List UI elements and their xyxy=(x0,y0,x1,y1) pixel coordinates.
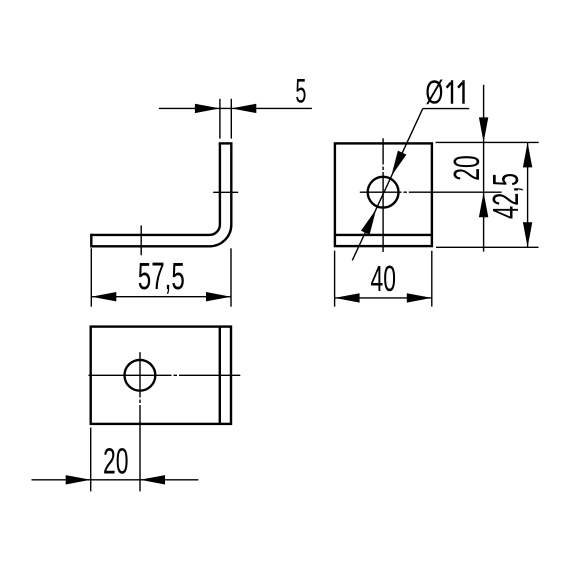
dimension 57,5: right extension line xyxy=(230,248,232,306)
front view: bend line xyxy=(335,234,432,236)
top view: horizontal centerline xyxy=(89,374,241,376)
front view: horizontal centerline xyxy=(360,191,502,193)
top view: plate outline xyxy=(91,327,231,424)
front view: vertical centerline xyxy=(382,138,384,252)
dimension 42,5: bottom arrowhead xyxy=(523,222,532,247)
dimension 20 (top view): left extension line xyxy=(90,428,92,492)
dimension 40: dimension line xyxy=(335,297,432,299)
dimension 57,5: dimension line xyxy=(91,296,231,298)
dimension 57,5: left arrowhead xyxy=(91,292,116,301)
dimension 57,5: right arrowhead xyxy=(206,292,231,301)
side view: hole axis tick on horizontal leg xyxy=(140,225,142,255)
dimension 20 (top view): right arrowhead xyxy=(140,475,165,484)
front view: hole circle xyxy=(368,177,399,208)
side view: L-profile inner outline xyxy=(91,143,220,235)
dimension 5: right arrowhead xyxy=(231,104,256,113)
top view: bend line xyxy=(219,327,221,424)
leader Ø11: lower arrowhead xyxy=(361,209,376,235)
dimension 42,5: dimension line xyxy=(527,142,529,247)
leader Ø11: digit 1 (first) xyxy=(447,80,452,104)
dimension 40: right extension line xyxy=(431,251,433,307)
svg-text:Ø: Ø xyxy=(425,74,443,111)
front view: plate outline xyxy=(335,143,432,246)
top view: hole circle xyxy=(124,360,155,391)
leader Ø11: digit 1 (second) xyxy=(458,80,463,104)
dimension 20 (front): upper arrowhead xyxy=(479,117,488,142)
dimension 5: left extension line xyxy=(219,99,221,139)
dimension 5: dimension line xyxy=(159,107,312,109)
top view: vertical centerline xyxy=(139,352,141,491)
svg-text:20: 20 xyxy=(446,155,487,181)
dimension 40: right arrowhead xyxy=(407,293,432,302)
dimension 40: left arrowhead xyxy=(335,293,360,302)
dimension 5: right extension line xyxy=(230,99,232,139)
svg-text:5: 5 xyxy=(295,73,306,111)
leader Ø11: shoulder line xyxy=(423,108,469,110)
side view: L-profile outer outline xyxy=(91,143,231,246)
dimension 42,5: bottom extension line xyxy=(436,246,539,248)
leader Ø11: diagonal line xyxy=(352,109,423,261)
dimension 20 (front): lower arrowhead xyxy=(479,192,488,217)
leader Ø11: upper arrowhead xyxy=(391,151,406,177)
dimension 5: left arrowhead xyxy=(195,104,220,113)
dimension 42,5: top arrowhead xyxy=(523,142,532,167)
svg-text:57,5: 57,5 xyxy=(138,256,185,298)
side view: left end cap xyxy=(90,234,92,248)
dimension 40: left extension line xyxy=(334,251,336,307)
dimension 20 (top view): left arrowhead xyxy=(66,475,91,484)
svg-text:40: 40 xyxy=(371,258,397,299)
svg-text:42,5: 42,5 xyxy=(485,173,526,219)
side view: hole axis tick on vertical leg xyxy=(213,191,238,193)
side view: top end cap xyxy=(219,142,233,144)
svg-text:20: 20 xyxy=(103,441,129,482)
dimension 57,5: left extension line xyxy=(90,248,92,306)
dimension 20 (front): top extension line xyxy=(436,141,539,143)
dimension 20 (top view): dimension line xyxy=(32,479,199,481)
dimension 20 (front): dimension line xyxy=(483,85,485,252)
